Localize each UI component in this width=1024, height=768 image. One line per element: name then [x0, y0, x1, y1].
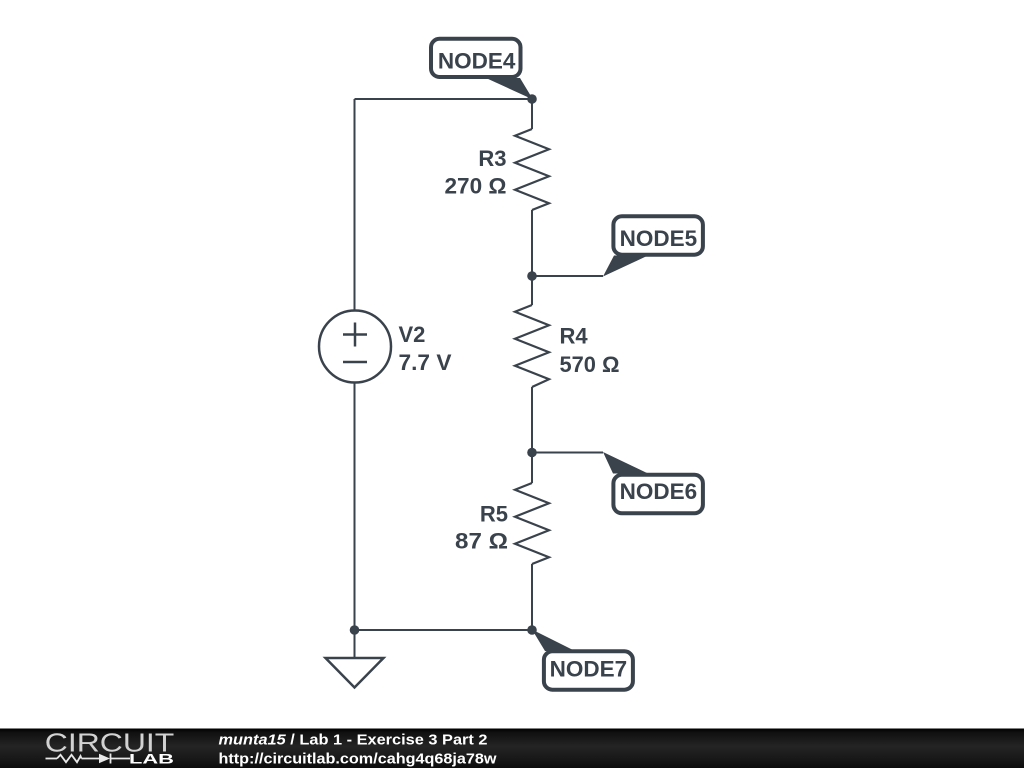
svg-text:R3: R3	[478, 146, 506, 171]
svg-text:7.7 V: 7.7 V	[399, 350, 452, 375]
svg-text:NODE7: NODE7	[550, 657, 628, 682]
svg-text:570 Ω: 570 Ω	[560, 352, 620, 377]
svg-text:NODE5: NODE5	[620, 226, 698, 251]
svg-text:NODE6: NODE6	[620, 479, 698, 504]
svg-text:V2: V2	[399, 322, 426, 347]
svg-text:NODE4: NODE4	[438, 49, 516, 74]
svg-text:R5: R5	[480, 502, 508, 527]
svg-text:LAB: LAB	[129, 752, 174, 767]
svg-text:munta15 / Lab 1 - Exercise 3 P: munta15 / Lab 1 - Exercise 3 Part 2	[219, 733, 488, 749]
svg-text:http://circuitlab.com/cahg4q68: http://circuitlab.com/cahg4q68ja78w	[219, 752, 498, 768]
svg-text:87 Ω: 87 Ω	[455, 529, 508, 554]
svg-text:270 Ω: 270 Ω	[445, 174, 507, 199]
svg-text:R4: R4	[560, 324, 589, 349]
